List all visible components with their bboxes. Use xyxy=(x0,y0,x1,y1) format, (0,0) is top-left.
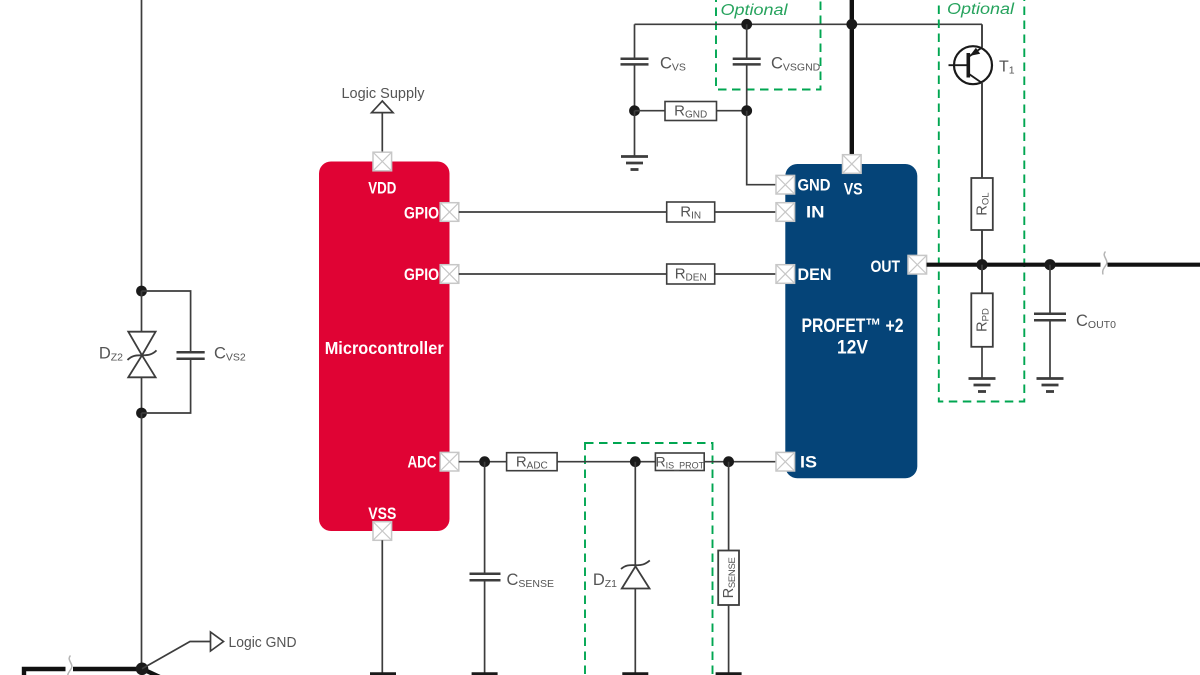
wire: DZ2 top stub xyxy=(141,291,143,332)
wire: DZ2 bottom stub xyxy=(141,377,143,413)
symbol: Logic Supply arrow xyxy=(372,101,393,113)
svg-text:Optional: Optional xyxy=(947,1,1015,18)
resistor RSENSE xyxy=(718,551,739,606)
node: bottom-left junction xyxy=(136,663,149,675)
wire: rail break marker xyxy=(66,666,74,674)
resistor RDEN xyxy=(667,264,715,284)
pin VS xyxy=(843,155,862,174)
svg-text:IN: IN xyxy=(806,203,825,222)
svg-text:T1: T1 xyxy=(999,59,1015,77)
wire: RADC to RIS_PROT xyxy=(557,461,655,463)
wire: VSS to ground xyxy=(381,540,383,672)
svg-text:PROFET™ +2: PROFET™ +2 xyxy=(802,315,904,337)
capacitor COUT0 xyxy=(1034,314,1066,321)
node: CVSGND top junction xyxy=(741,19,752,30)
pin GND xyxy=(776,175,795,194)
wire: CSENSE top xyxy=(484,462,486,573)
wire: RIN to IN pin xyxy=(715,211,776,213)
resistor ROL xyxy=(971,178,993,230)
capacitor CVS xyxy=(621,59,649,65)
svg-text:Logic Supply: Logic Supply xyxy=(342,85,425,102)
ground: below RGND xyxy=(621,157,648,170)
pin GPIO2 xyxy=(440,265,459,284)
wire: top horizontal VS net xyxy=(635,23,983,25)
ground: VSS bottom bar xyxy=(370,672,396,675)
optional box around DZ1 / RIS_PROT xyxy=(585,443,713,675)
svg-text:VSS: VSS xyxy=(368,504,396,523)
wire: thick diagonal continuation xyxy=(142,669,164,675)
svg-text:CVSGND: CVSGND xyxy=(771,55,821,74)
resistor RIN xyxy=(667,202,715,222)
wire: CVS2 branch bottom xyxy=(142,359,191,413)
resistor RPD xyxy=(971,293,993,347)
wire: DZ1 top xyxy=(634,462,636,566)
wire: OUT to RPD xyxy=(981,265,983,294)
wire: GPIO1 to RIN xyxy=(459,211,667,213)
svg-text:GPIO: GPIO xyxy=(404,265,439,284)
svg-text:Logic GND: Logic GND xyxy=(229,634,297,651)
wire: RGND ground stub xyxy=(634,111,636,157)
wire: DZ1 bottom xyxy=(634,589,636,673)
resistor RIS_PROT xyxy=(655,453,704,471)
node: CSENSE junction xyxy=(479,456,490,467)
resistor RADC xyxy=(507,453,557,471)
wire: COUT0 top xyxy=(1049,265,1051,314)
wire: RGND left lead xyxy=(635,110,666,112)
ground: below RPD xyxy=(969,379,996,392)
svg-text:GPIO: GPIO xyxy=(404,204,439,223)
svg-text:CVS: CVS xyxy=(660,55,686,74)
pin ADC xyxy=(440,452,459,471)
capacitor CVS2 xyxy=(177,352,205,359)
svg-text:DZ2: DZ2 xyxy=(99,345,123,364)
svg-text:DEN: DEN xyxy=(798,265,832,284)
diode DZ2 (bidirectional TVS) xyxy=(128,332,157,378)
svg-text:DZ1: DZ1 xyxy=(593,571,617,590)
PROFET block xyxy=(785,164,917,478)
capacitor CVSGND xyxy=(733,59,761,65)
pin GPIO1 xyxy=(440,203,459,222)
wire: Logic GND arrow lead xyxy=(142,642,211,669)
pin IS xyxy=(776,452,795,471)
svg-text:CVS2: CVS2 xyxy=(214,345,246,364)
svg-text:Optional: Optional xyxy=(721,2,789,19)
svg-text:IS: IS xyxy=(800,453,817,472)
wire: bottom thick GND rail xyxy=(24,669,142,675)
wire: left supply rail vertical top xyxy=(141,0,143,291)
wire: CVS2 branch top xyxy=(142,291,191,352)
ground: below COUT0 xyxy=(1037,379,1064,392)
svg-text:Microcontroller: Microcontroller xyxy=(325,338,444,358)
node: DZ1 junction xyxy=(630,456,641,467)
wire: CVSGND bottom stub xyxy=(746,64,748,110)
pin VDD xyxy=(373,152,392,171)
pin OUT xyxy=(908,255,927,274)
optional box around CVSGND xyxy=(716,0,821,90)
svg-text:VS: VS xyxy=(844,180,863,199)
resistor RGND xyxy=(665,102,717,121)
ground: RSENSE bottom bar xyxy=(716,672,742,675)
svg-text:GND: GND xyxy=(798,176,831,195)
wire: RSENSE top xyxy=(728,462,730,551)
wire: ROL to OUT line xyxy=(981,230,983,265)
wire: CVS top stub xyxy=(634,24,636,59)
wire: thick OUT line xyxy=(927,263,1200,267)
symbol: Logic GND arrow xyxy=(211,632,224,651)
wire: GPIO2 to RDEN xyxy=(459,273,667,275)
wire: OUT line break marker xyxy=(1101,261,1108,269)
node: COUT0 junction on OUT xyxy=(1044,259,1055,270)
svg-text:COUT0: COUT0 xyxy=(1076,312,1116,331)
microcontroller block xyxy=(319,162,450,532)
wire: thick VS supply line xyxy=(850,0,854,155)
svg-text:ADC: ADC xyxy=(408,453,437,472)
node: RGND left junction xyxy=(629,105,640,116)
pin IN xyxy=(776,203,795,222)
wire: CVS bottom stub xyxy=(634,64,636,110)
pin VSS xyxy=(373,522,392,541)
optional box right (T1/ROL/RPD) xyxy=(939,0,1025,402)
wire: RSENSE bottom xyxy=(728,605,730,673)
wire: RPD to ground xyxy=(981,347,983,379)
wire: down to GND pin xyxy=(747,111,776,185)
wire: RDEN to DEN pin xyxy=(715,273,776,275)
ground: DZ1 bottom bar xyxy=(622,672,648,675)
svg-text:CSENSE: CSENSE xyxy=(507,571,555,590)
ground: CSENSE bottom bar xyxy=(472,672,498,675)
wire: COUT0 bottom xyxy=(1049,320,1051,378)
transistor T1 xyxy=(949,46,993,84)
svg-text:OUT: OUT xyxy=(871,257,901,276)
wire: CSENSE bottom xyxy=(484,580,486,672)
node: RGND right junction xyxy=(741,105,752,116)
wire: RIS_PROT to IS pin xyxy=(704,461,776,463)
pin DEN xyxy=(776,265,795,284)
svg-text:12V: 12V xyxy=(837,337,868,359)
node: RSENSE junction xyxy=(723,456,734,467)
wire: ADC to IS net xyxy=(459,461,507,463)
diode DZ1 (zener) xyxy=(621,560,650,588)
svg-text:VDD: VDD xyxy=(368,179,396,198)
node: ROL/RPD junction on OUT xyxy=(976,259,987,270)
wire: Logic Supply lead xyxy=(381,113,383,153)
node: junction bottom of DZ2 xyxy=(136,408,147,419)
capacitor CSENSE xyxy=(470,574,501,581)
wire: RGND right lead xyxy=(717,110,747,112)
wire: left rail bottom xyxy=(141,413,143,669)
node: VS line junction xyxy=(846,19,857,30)
wire: CVSGND top stub xyxy=(746,24,748,59)
wire: T1 collector top lead xyxy=(981,24,983,47)
wire: T1 emitter to ROL xyxy=(981,83,983,178)
node: junction top of DZ2 xyxy=(136,286,147,297)
